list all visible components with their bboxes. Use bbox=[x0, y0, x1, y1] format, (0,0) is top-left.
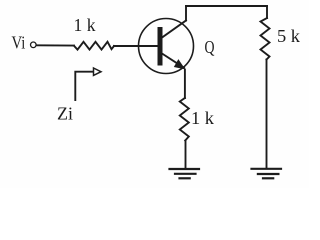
wire R2 to ground bbox=[266, 60, 268, 169]
Zi arrow bbox=[75, 72, 93, 100]
wire emitter down bbox=[184, 70, 186, 99]
transistor Q collector line bbox=[162, 21, 186, 38]
resistor R1 1k zigzag bbox=[74, 42, 114, 50]
transistor Q body circle bbox=[139, 19, 194, 74]
ground left bbox=[170, 169, 200, 178]
svg-text:1 k: 1 k bbox=[191, 108, 214, 128]
wire collector up bbox=[185, 6, 187, 21]
resistor R2 5k zigzag bbox=[261, 18, 270, 60]
wire input to R1 bbox=[37, 44, 74, 46]
input terminal bbox=[31, 42, 37, 48]
ground right bbox=[252, 169, 282, 179]
wire top to R2 bbox=[266, 6, 268, 18]
svg-text:1 k: 1 k bbox=[74, 15, 96, 35]
svg-text:Q: Q bbox=[205, 37, 215, 57]
wire R1 to base bbox=[114, 45, 157, 47]
transistor Q base bar bbox=[158, 30, 163, 64]
wire R3 to ground bbox=[185, 141, 187, 169]
svg-text:Zi: Zi bbox=[57, 104, 73, 124]
resistor R3 1k zigzag bbox=[180, 98, 189, 141]
transistor Q emitter arrowhead bbox=[175, 60, 185, 69]
wire top horizontal bbox=[186, 5, 267, 7]
svg-text:Vi: Vi bbox=[12, 33, 26, 53]
svg-text:5 k: 5 k bbox=[277, 26, 300, 46]
transistor Q emitter line bbox=[162, 54, 184, 68]
Zi arrowhead open bbox=[94, 68, 102, 75]
